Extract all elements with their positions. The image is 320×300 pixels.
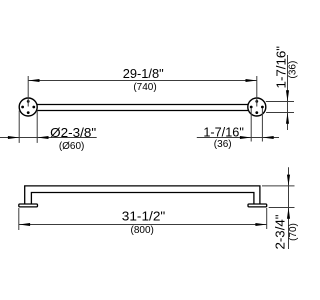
svg-text:31-1/2": 31-1/2"	[122, 209, 166, 224]
svg-text:(Ø60): (Ø60)	[59, 141, 85, 152]
svg-text:(740): (740)	[133, 82, 156, 93]
svg-text:(70): (70)	[288, 223, 299, 241]
svg-text:Ø2-3/8": Ø2-3/8"	[50, 125, 96, 140]
svg-text:2-3/4": 2-3/4"	[273, 214, 288, 249]
svg-text:(800): (800)	[131, 225, 154, 236]
svg-text:1-7/16": 1-7/16"	[203, 124, 244, 139]
svg-text:29-1/8": 29-1/8"	[123, 66, 164, 81]
svg-text:(36): (36)	[214, 139, 232, 150]
svg-text:(36): (36)	[288, 61, 299, 79]
svg-text:1-7/16": 1-7/16"	[273, 46, 288, 89]
